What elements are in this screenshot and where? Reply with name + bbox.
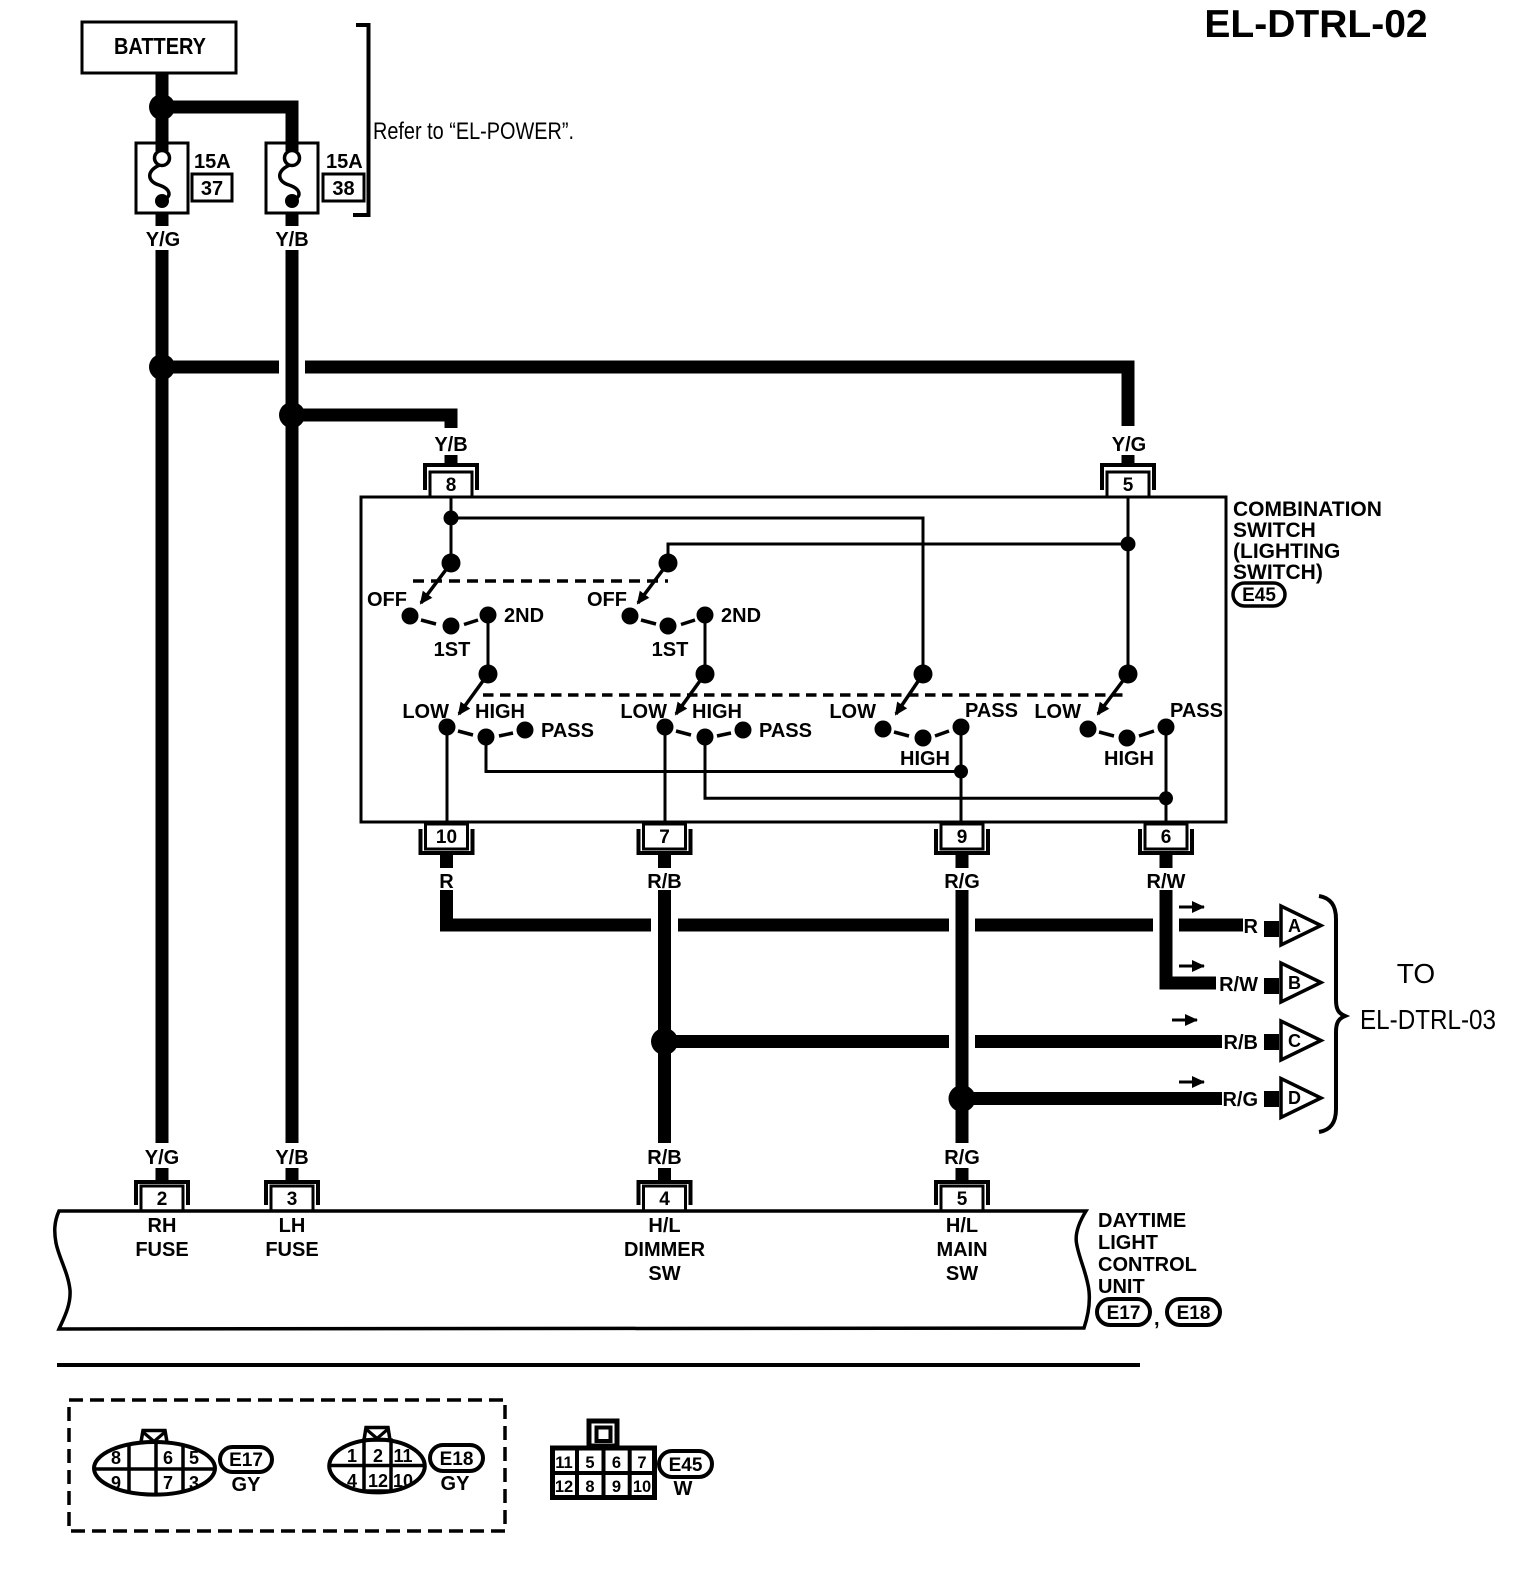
svg-text:7: 7: [637, 1454, 646, 1472]
svg-text:UNIT: UNIT: [1098, 1276, 1145, 1298]
wire R stub pin10: [440, 855, 453, 868]
switch SW2 lighting: [622, 554, 714, 635]
wire pin5 to switch2: [668, 544, 1128, 563]
svg-text:LOW: LOW: [620, 701, 667, 723]
daytime light control unit label: [1098, 1210, 1197, 1298]
switch SW4 dimmer2: [657, 665, 752, 746]
battery B1: [82, 22, 236, 73]
connector pin 4: [639, 1182, 691, 1211]
svg-text:2ND: 2ND: [504, 605, 544, 627]
svg-text:PASS: PASS: [541, 720, 594, 742]
svg-text:8: 8: [111, 1448, 121, 1468]
svg-text:1: 1: [347, 1446, 357, 1466]
arrow A: [1179, 906, 1204, 909]
mech link dashed upper: [413, 579, 668, 583]
switch SW1 lighting: [402, 554, 497, 635]
svg-text:E18: E18: [440, 1449, 474, 1470]
svg-text:10: 10: [436, 827, 457, 848]
svg-text:COMBINATION: COMBINATION: [1233, 498, 1382, 521]
bracket refer EL-POWER: [353, 25, 369, 215]
wire R/G to terminal D: [962, 1092, 1222, 1105]
svg-text:R/G: R/G: [944, 871, 980, 893]
svg-text:C: C: [1288, 1031, 1301, 1051]
svg-text:R/G: R/G: [944, 1147, 980, 1169]
svg-text:MAIN: MAIN: [936, 1239, 987, 1261]
wire node to fuse 38: [168, 107, 292, 151]
svg-text:6: 6: [612, 1454, 621, 1472]
wire Y/G branch to pin 5: [162, 361, 279, 374]
svg-text:LOW: LOW: [1034, 701, 1081, 723]
svg-text:GY: GY: [232, 1474, 262, 1496]
connector pin 7: [639, 824, 691, 853]
svg-text:4: 4: [347, 1471, 357, 1491]
wire high2 to pass4 line: [705, 737, 1166, 798]
svg-text:9: 9: [612, 1478, 621, 1496]
connector pin 5 bottom: [936, 1182, 988, 1211]
svg-text:H/L: H/L: [648, 1215, 680, 1237]
svg-text:37: 37: [201, 178, 223, 200]
wire Y/B branch to pin 8: [292, 409, 458, 429]
svg-text:10: 10: [393, 1471, 413, 1491]
svg-text:Refer to “EL-POWER”.: Refer to “EL-POWER”.: [373, 118, 574, 145]
svg-text:SW: SW: [946, 1263, 978, 1285]
svg-text:,: ,: [1154, 1308, 1160, 1330]
svg-text:GY: GY: [441, 1473, 471, 1495]
svg-text:5: 5: [585, 1454, 594, 1472]
wire pass3 to pin9: [960, 727, 963, 822]
wire R/G stub pin9: [956, 855, 969, 868]
svg-text:OFF: OFF: [367, 589, 407, 611]
svg-text:Y/G: Y/G: [146, 229, 180, 251]
fuse number 38: [323, 174, 364, 201]
svg-text:6: 6: [163, 1448, 173, 1468]
svg-text:E17: E17: [229, 1450, 263, 1471]
svg-text:R/G: R/G: [1222, 1089, 1258, 1111]
svg-text:DAYTIME: DAYTIME: [1098, 1210, 1186, 1232]
svg-text:5: 5: [957, 1189, 968, 1210]
svg-text:E17: E17: [1107, 1303, 1141, 1324]
node Y/B branch: [279, 402, 305, 428]
svg-text:R/W: R/W: [1219, 974, 1258, 996]
terminal C: [1224, 1021, 1321, 1060]
svg-text:DIMMER: DIMMER: [624, 1239, 706, 1261]
switch SW6 main2: [1080, 665, 1175, 747]
wire R to terminal A: [440, 890, 1243, 932]
unit pin labels: [135, 1215, 987, 1285]
wire pin8 to switch3: [451, 518, 923, 674]
svg-text:2: 2: [373, 1446, 383, 1466]
svg-text:9: 9: [957, 827, 968, 848]
terminal B: [1219, 963, 1321, 1002]
arrow C: [1172, 1019, 1197, 1022]
svg-text:LIGHT: LIGHT: [1098, 1232, 1158, 1254]
connector E45 label bottom: [659, 1451, 712, 1500]
arrow B: [1179, 965, 1204, 968]
svg-text:Y/B: Y/B: [434, 434, 467, 456]
svg-text:PASS: PASS: [759, 720, 812, 742]
svg-text:A: A: [1288, 916, 1301, 936]
node high1 pass3: [954, 765, 968, 779]
svg-text:8: 8: [446, 475, 457, 496]
svg-text:E45: E45: [1242, 585, 1276, 606]
terminal D: [1222, 1079, 1321, 1118]
switch SW3 dimmer1: [439, 665, 534, 746]
svg-text:11: 11: [393, 1446, 412, 1466]
svg-text:5: 5: [189, 1448, 199, 1468]
svg-text:SW: SW: [648, 1263, 680, 1285]
separator line: [57, 1363, 1140, 1367]
wire 2nd2 to dimmer2: [704, 615, 707, 674]
connector pin 10: [421, 824, 473, 853]
wire high1 to pass3 line: [486, 737, 961, 772]
svg-text:PASS: PASS: [965, 700, 1018, 722]
daytime light control unit box: [55, 1211, 1090, 1329]
connector E18 oval label: [1167, 1299, 1220, 1325]
svg-text:R/B: R/B: [647, 1147, 681, 1169]
svg-text:1ST: 1ST: [434, 639, 471, 661]
connector pin 3: [266, 1182, 318, 1211]
wire R/W pin6 to terminal B: [1160, 890, 1217, 990]
combination switch box E45: [361, 497, 1226, 822]
svg-text:RH: RH: [148, 1215, 177, 1237]
svg-text:(LIGHTING: (LIGHTING: [1233, 540, 1340, 563]
svg-text:HIGH: HIGH: [1104, 748, 1154, 770]
svg-text:2ND: 2ND: [721, 605, 761, 627]
svg-text:1ST: 1ST: [652, 639, 689, 661]
node pin5 branch: [1121, 537, 1136, 552]
svg-text:BATTERY: BATTERY: [114, 33, 206, 59]
fuse number 37: [192, 174, 232, 201]
svg-text:38: 38: [332, 178, 354, 200]
wire node to fuse 37: [156, 113, 169, 151]
brace to EL-DTRL-03: [1319, 896, 1345, 1132]
connector E17 label: [220, 1447, 272, 1496]
svg-text:SWITCH: SWITCH: [1233, 519, 1316, 542]
wire R/W stub pin6: [1160, 855, 1173, 868]
fuse F37 15A: [136, 143, 188, 213]
connector pin 9: [936, 824, 988, 853]
node Y/G branch: [149, 354, 175, 380]
wire label Y/G fuse out: [156, 213, 169, 226]
connector face E17: [94, 1431, 215, 1496]
connector E17 oval label: [1097, 1299, 1150, 1325]
svg-text:FUSE: FUSE: [265, 1239, 318, 1261]
svg-text:12: 12: [555, 1478, 573, 1496]
svg-text:E18: E18: [1177, 1303, 1211, 1324]
switch SW5 main1: [875, 665, 970, 747]
svg-text:10: 10: [633, 1478, 651, 1496]
connector E18 label: [430, 1445, 483, 1495]
svg-text:W: W: [674, 1478, 693, 1500]
svg-text:12: 12: [368, 1471, 388, 1491]
wire pin8 internal: [450, 497, 453, 563]
svg-text:E45: E45: [669, 1455, 703, 1476]
connector pin 5 top: [1102, 465, 1154, 497]
connector pin 6: [1140, 824, 1192, 853]
svg-text:6: 6: [1161, 827, 1172, 848]
wire 2nd1 to dimmer1: [487, 615, 490, 674]
svg-text:5: 5: [1123, 475, 1134, 496]
svg-text:R/B: R/B: [1224, 1032, 1258, 1054]
wire R/G vertical pin9 to pin5: [956, 890, 969, 1143]
svg-text:15A: 15A: [194, 151, 231, 173]
node R/G branch: [949, 1085, 976, 1112]
node battery junction: [149, 94, 175, 120]
combination switch label: [1233, 498, 1382, 584]
node R/B branch: [651, 1028, 678, 1055]
svg-text:11: 11: [555, 1454, 572, 1472]
svg-text:H/L: H/L: [946, 1215, 978, 1237]
wire low1 to pin10: [446, 727, 449, 822]
wire pin5 internal: [1127, 497, 1130, 674]
svg-text:R/W: R/W: [1147, 871, 1186, 893]
wire low2 to pin7: [664, 727, 667, 822]
svg-text:CONTROL: CONTROL: [1098, 1254, 1197, 1276]
fuse F38 15A: [266, 143, 318, 213]
connector face E18: [329, 1428, 425, 1493]
svg-text:FUSE: FUSE: [135, 1239, 188, 1261]
svg-text:LH: LH: [279, 1215, 306, 1237]
connector pin 8: [425, 465, 477, 497]
wire label Y/B fuse out: [286, 213, 299, 226]
connector pin 2: [136, 1182, 188, 1211]
svg-text:Y/B: Y/B: [275, 1147, 308, 1169]
connector E45 oval top: [1233, 583, 1285, 606]
svg-text:R: R: [1244, 916, 1259, 938]
svg-text:Y/G: Y/G: [145, 1147, 179, 1169]
svg-text:7: 7: [163, 1473, 173, 1493]
svg-text:PASS: PASS: [1170, 700, 1223, 722]
svg-text:EL-DTRL-02: EL-DTRL-02: [1204, 3, 1427, 46]
svg-text:3: 3: [189, 1473, 199, 1493]
svg-text:15A: 15A: [326, 151, 363, 173]
connector face E45: [552, 1421, 655, 1498]
dashed detail box: [69, 1400, 505, 1531]
node pin8 branch: [444, 511, 459, 526]
svg-text:B: B: [1288, 973, 1301, 993]
svg-text:OFF: OFF: [587, 589, 627, 611]
node high2 pass4: [1159, 791, 1173, 805]
terminal A: [1244, 906, 1321, 945]
svg-text:LOW: LOW: [402, 701, 449, 723]
wire R/B vertical pin7 to pin4: [658, 890, 671, 1143]
wire Y/G main vertical: [156, 250, 169, 1143]
svg-text:SWITCH): SWITCH): [1233, 561, 1323, 584]
arrow D: [1179, 1081, 1204, 1084]
svg-text:TO: TO: [1397, 958, 1435, 989]
svg-text:3: 3: [287, 1189, 298, 1210]
svg-text:4: 4: [659, 1189, 670, 1210]
svg-text:R/B: R/B: [647, 871, 681, 893]
wire R/B to terminal C: [665, 1035, 1223, 1048]
svg-text:9: 9: [111, 1473, 121, 1493]
svg-text:2: 2: [157, 1189, 168, 1210]
wire Y/B main vertical: [286, 250, 299, 1143]
svg-text:EL-DTRL-03: EL-DTRL-03: [1360, 1004, 1496, 1035]
svg-text:7: 7: [659, 827, 670, 848]
mech link dashed lower: [483, 693, 1128, 697]
svg-text:Y/B: Y/B: [275, 229, 308, 251]
svg-text:Y/G: Y/G: [1112, 434, 1146, 456]
svg-text:LOW: LOW: [829, 701, 876, 723]
svg-text:HIGH: HIGH: [900, 748, 950, 770]
svg-text:R: R: [439, 871, 454, 893]
wire battery to node: [156, 73, 169, 101]
svg-text:8: 8: [585, 1478, 594, 1496]
svg-text:HIGH: HIGH: [475, 701, 525, 723]
svg-text:HIGH: HIGH: [692, 701, 742, 723]
svg-text:D: D: [1288, 1088, 1301, 1108]
wire pass4 to pin6: [1165, 727, 1168, 822]
wire R/B stub pin7: [658, 855, 671, 868]
